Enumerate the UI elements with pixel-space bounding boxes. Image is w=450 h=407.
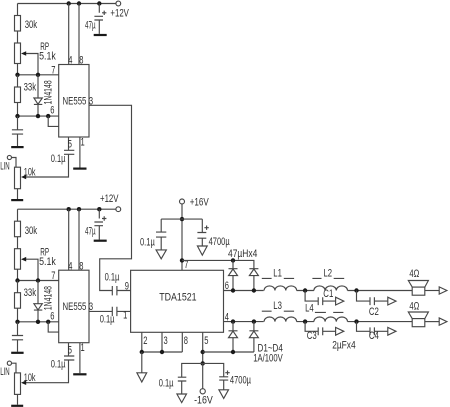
capacitor 4700µ (-16V) <box>203 363 229 389</box>
wire <box>348 290 413 292</box>
wire and output arrow (channel 1) <box>425 290 439 292</box>
svg-text:L2: L2 <box>324 268 333 280</box>
potentiometer RP 5.1k stage 2 <box>15 249 21 270</box>
svg-text:8: 8 <box>79 55 83 67</box>
svg-text:47µHx4: 47µHx4 <box>228 248 257 260</box>
capacitor C1 <box>305 291 336 306</box>
wire and output arrow (channel 2) <box>425 321 439 323</box>
capacitor 4700µ (+16V) <box>197 219 206 246</box>
wire <box>17 237 19 249</box>
speaker 4Ω (channel 2) <box>408 312 428 319</box>
node: pin 7 row stage 1 <box>18 74 59 76</box>
svg-text:33k: 33k <box>24 287 37 299</box>
wire: -16V rail to clamp diodes <box>203 351 254 353</box>
wire: pin 2 <box>141 332 143 352</box>
svg-text:30k: 30k <box>25 225 38 237</box>
wire: pin 1 to ground stage 1 <box>79 137 81 168</box>
wire: pin 8 <box>78 209 80 270</box>
ground <box>219 390 229 399</box>
svg-text:7: 7 <box>51 65 55 77</box>
svg-text:1N4148: 1N4148 <box>43 80 55 104</box>
diode D1 (clamp to +16V) <box>229 260 238 268</box>
wire <box>17 269 19 280</box>
svg-text:5: 5 <box>204 335 208 347</box>
svg-text:+16V: +16V <box>190 197 209 209</box>
svg-text:C4: C4 <box>369 330 379 342</box>
svg-text:L4: L4 <box>305 303 314 315</box>
ground <box>177 394 187 403</box>
resistor 33k stage 1 <box>17 75 19 87</box>
diode D4 (clamp to -16V) <box>249 322 258 331</box>
ground (C1) <box>336 297 344 305</box>
svg-text:0.1µ: 0.1µ <box>159 378 174 390</box>
wire <box>17 394 19 404</box>
svg-text:1A/100V: 1A/100V <box>253 353 283 365</box>
svg-text:4: 4 <box>68 260 72 272</box>
wire: pin 4 <box>68 4 70 65</box>
svg-text:47µ: 47µ <box>85 20 96 32</box>
wire: NE555-2 pin3 to coupling cap <box>89 310 112 312</box>
svg-text:C3: C3 <box>307 330 317 342</box>
svg-text:0.1µ: 0.1µ <box>51 359 66 371</box>
inductor L3 <box>264 317 297 322</box>
svg-text:1: 1 <box>123 310 127 322</box>
svg-text:0.1µ: 0.1µ <box>100 314 115 326</box>
svg-text:4Ω: 4Ω <box>409 268 419 280</box>
inductor L2 <box>314 286 348 291</box>
wire: pin 4 <box>68 209 70 270</box>
IC NE555 stage 2 <box>59 270 89 343</box>
inductor L4 <box>314 317 348 322</box>
svg-text:33k: 33k <box>24 82 37 94</box>
svg-text:9: 9 <box>125 281 129 293</box>
terminal +12V stage 2 <box>116 207 121 212</box>
inductor L1 <box>264 286 297 291</box>
wire: +12V supply rail stage 2 <box>18 208 116 210</box>
svg-text:1: 1 <box>81 137 85 149</box>
ground (10k pot) stage 1 <box>11 199 23 201</box>
node: pin 6 / pin 2 row stage 2 <box>18 321 59 323</box>
capacitor 0.1µ (coupling to pin 1) <box>112 307 130 316</box>
svg-text:6: 6 <box>225 280 229 292</box>
ground <box>11 352 23 354</box>
ground (signal) <box>141 352 143 373</box>
wire <box>17 209 19 221</box>
wire: pin 6 output row <box>224 290 264 292</box>
ground (C2) <box>388 297 396 305</box>
svg-text:C2: C2 <box>369 306 379 318</box>
svg-text:4: 4 <box>68 55 72 67</box>
capacitor 0.1µ (-16V decoupling) <box>178 363 203 394</box>
svg-text:LIN: LIN <box>0 366 10 378</box>
svg-text:5.1k: 5.1k <box>39 256 56 268</box>
resistor 30k stage 1 <box>15 16 21 32</box>
resistor 30k stage 2 <box>15 221 21 237</box>
terminal LIN stage 2 <box>7 361 11 365</box>
svg-text:1N4148: 1N4148 <box>43 286 55 310</box>
capacitor 0.1µ (+16V decoupling) <box>156 219 166 250</box>
ground (47µ) stage 2 <box>94 240 107 242</box>
svg-text:+12V: +12V <box>110 8 129 20</box>
wire <box>297 321 314 323</box>
svg-text:7: 7 <box>51 270 55 282</box>
wire <box>17 64 19 75</box>
wire: pin 8 <box>181 332 183 352</box>
capacitor 47µ stage 2 <box>94 209 103 239</box>
wire: pin 1 to ground stage 2 <box>79 343 81 374</box>
wire: pin 8 <box>78 4 80 65</box>
svg-text:4: 4 <box>225 311 229 323</box>
svg-text:3: 3 <box>164 335 168 347</box>
svg-text:0.1µ: 0.1µ <box>51 153 66 165</box>
svg-text:5.1k: 5.1k <box>39 51 56 63</box>
wire: +16V clamp rail <box>182 260 254 268</box>
svg-text:2µFx4: 2µFx4 <box>332 339 355 351</box>
wire: +16V decoupling rail <box>161 218 202 220</box>
potentiometer 10k stage 1 <box>15 167 21 189</box>
wire <box>297 290 314 292</box>
diode D3 (clamp to -16V) <box>229 322 238 331</box>
svg-text:47µ: 47µ <box>85 225 96 237</box>
terminal -16V <box>202 363 204 388</box>
wire <box>12 363 17 373</box>
capacitor 0.1µ (coupling to pin 9) <box>112 286 130 295</box>
svg-text:4700µ: 4700µ <box>230 375 252 387</box>
wire <box>17 189 19 199</box>
wire: ground bus pins 2,3,8 <box>142 351 183 353</box>
ground <box>197 246 207 255</box>
capacitor 47µ stage 1 <box>94 4 103 34</box>
wire: NE555-1 pin3 to coupling cap <box>89 105 132 290</box>
svg-text:0.1µ: 0.1µ <box>105 272 120 284</box>
wire: pin 2 jog stage 2 <box>48 322 59 332</box>
diode 1N4148 stage 1 <box>37 75 39 98</box>
svg-text:1: 1 <box>81 342 85 354</box>
diode D2 (clamp to +16V) <box>249 268 258 270</box>
svg-text:L1: L1 <box>273 268 282 280</box>
wire: +16V to pin 7 <box>181 204 183 270</box>
wire: pin 3 <box>161 332 163 352</box>
node: pin 6 / pin 2 row stage 1 <box>18 115 59 117</box>
ground (47µ) stage 1 <box>94 34 107 36</box>
node: junctions on +12V rail stage 2 <box>67 207 71 211</box>
wire: +12V supply rail stage 1 <box>18 3 116 5</box>
wire: pin 2 jog stage 1 <box>48 116 59 126</box>
ground (pin 1) stage 1 <box>73 168 86 170</box>
wire <box>17 31 19 43</box>
capacitor 0.1µ on pin 5 stage 2 <box>26 343 74 383</box>
svg-text:8: 8 <box>79 260 83 272</box>
svg-text:+12V: +12V <box>100 193 119 205</box>
svg-text:8: 8 <box>184 335 188 347</box>
wire <box>12 158 17 168</box>
node: pin 7 row stage 2 <box>18 280 59 282</box>
svg-text:L3: L3 <box>273 300 282 312</box>
node: junctions on +12V rail stage 1 <box>67 1 71 5</box>
terminal +16V <box>180 199 185 204</box>
svg-text:2: 2 <box>143 335 147 347</box>
capacitor C3 <box>305 322 336 336</box>
svg-text:NE555: NE555 <box>63 301 87 313</box>
diode 1N4148 stage 2 <box>37 281 39 304</box>
svg-text:0.1µ: 0.1µ <box>140 237 155 249</box>
wire <box>17 4 19 16</box>
ground (10k pot) stage 2 <box>11 405 23 407</box>
svg-text:5: 5 <box>68 344 72 356</box>
potentiometer RP 5.1k stage 1 <box>15 43 21 64</box>
ground (C4) <box>388 327 396 335</box>
wire: pin 5 (-16V) <box>202 332 204 363</box>
resistor 33k stage 2 <box>17 281 19 293</box>
terminal +12V stage 1 <box>116 1 121 6</box>
svg-text:4700µ: 4700µ <box>209 236 231 248</box>
speaker 4Ω (channel 1) <box>408 281 428 288</box>
capacitor C4 <box>357 322 388 336</box>
ground (pin 1) stage 2 <box>73 373 86 375</box>
ground <box>11 146 23 148</box>
svg-text:TDA1521: TDA1521 <box>159 291 196 303</box>
terminal LIN stage 1 <box>7 155 11 159</box>
IC TDA1521 power amplifier <box>131 270 224 332</box>
IC NE555 stage 1 <box>59 65 89 138</box>
svg-text:5: 5 <box>68 139 72 151</box>
ground (C3) <box>336 327 344 335</box>
capacitor C2 <box>357 291 388 306</box>
wire: pin 4 output row <box>224 321 264 323</box>
potentiometer 10k stage 2 <box>15 373 21 395</box>
svg-text:4Ω: 4Ω <box>409 300 419 312</box>
capacitor (timing) stage 2 <box>12 322 23 352</box>
svg-text:-16V: -16V <box>194 394 213 406</box>
ground <box>156 250 166 259</box>
capacitor 0.1µ on pin 5 stage 1 <box>26 137 74 177</box>
svg-text:6: 6 <box>50 105 54 117</box>
capacitor (timing) stage 1 <box>12 116 23 146</box>
wire <box>348 321 413 323</box>
svg-text:LIN: LIN <box>0 161 10 173</box>
svg-text:30k: 30k <box>25 19 38 31</box>
svg-text:6: 6 <box>50 310 54 322</box>
svg-text:NE555: NE555 <box>63 96 87 108</box>
